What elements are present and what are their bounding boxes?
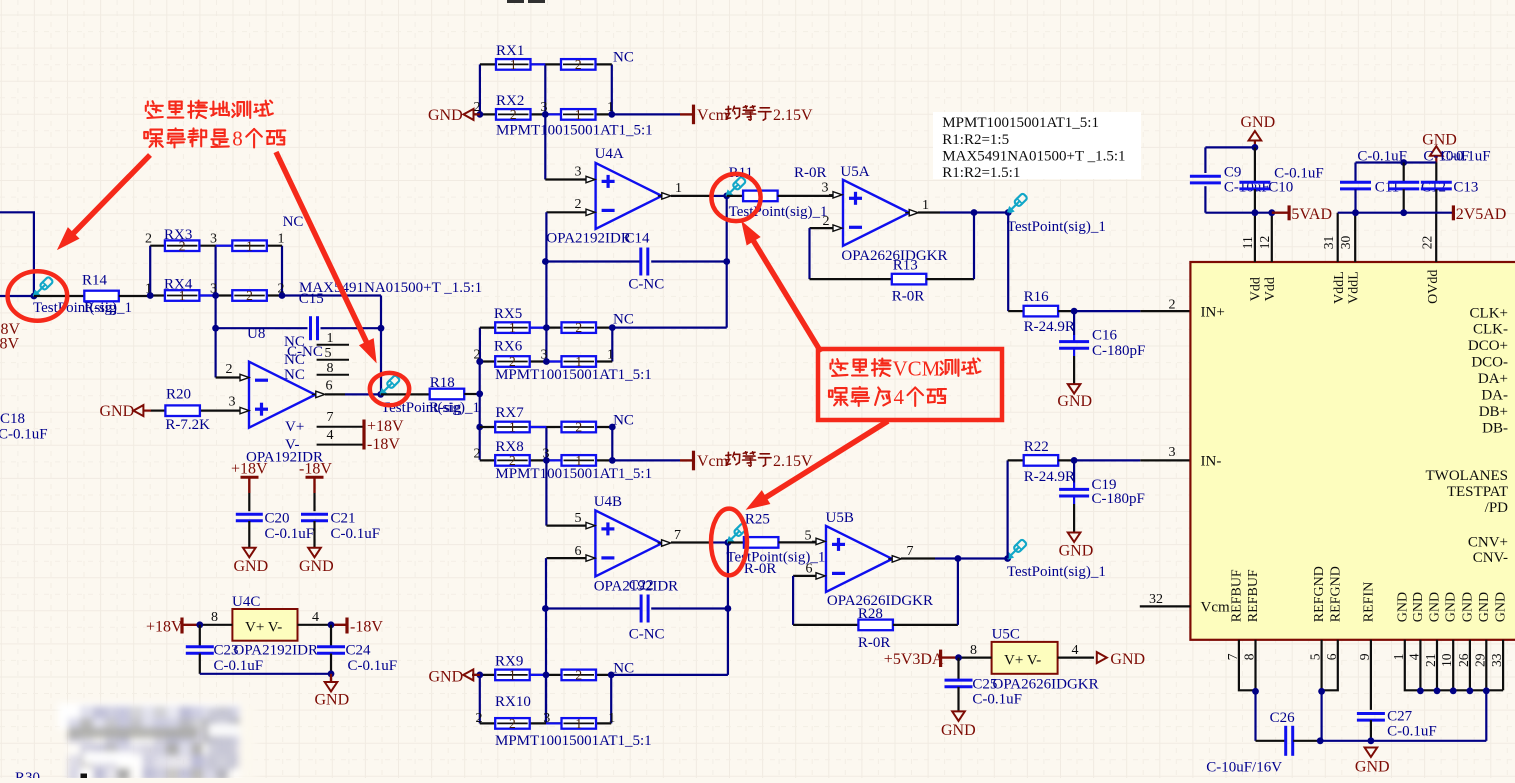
svg-text:IN-: IN- xyxy=(1201,454,1222,470)
svg-text:CNV+: CNV+ xyxy=(1468,535,1508,551)
svg-text:4: 4 xyxy=(327,428,334,443)
svg-text:RX7: RX7 xyxy=(495,405,524,421)
resistor R14 xyxy=(34,295,84,297)
wire RX5/RX6 verticals xyxy=(479,328,481,362)
svg-text:GND: GND xyxy=(234,558,269,575)
svg-text:GND: GND xyxy=(1411,592,1426,622)
svg-text:21: 21 xyxy=(1423,654,1438,668)
svg-text:6: 6 xyxy=(1324,653,1339,660)
node U4A output junction xyxy=(723,193,730,200)
ground GND right of U5C pin4 xyxy=(1097,652,1107,663)
U5C pin 4 xyxy=(1058,656,1094,658)
svg-text:REFGND: REFGND xyxy=(1312,566,1327,622)
svg-text:MPMT10015001AT1_5:1: MPMT10015001AT1_5:1 xyxy=(495,367,652,383)
svg-text:29: 29 xyxy=(1472,653,1487,667)
svg-text:-18V: -18V xyxy=(350,618,383,635)
svg-text:C18: C18 xyxy=(0,411,25,427)
svg-text:NC: NC xyxy=(284,367,305,383)
node R18 junction xyxy=(476,390,483,397)
svg-text:2: 2 xyxy=(1169,298,1176,313)
wire IC pin 9 REFIN xyxy=(1370,640,1372,710)
svg-text:V+: V+ xyxy=(285,419,304,435)
U4C pin 4 xyxy=(298,624,332,626)
IC pin 22 (OVdd) xyxy=(1435,213,1437,262)
svg-text:8: 8 xyxy=(327,361,334,376)
test point TP U4B output xyxy=(727,523,747,543)
svg-text:12: 12 xyxy=(1257,236,1272,250)
ground GND below C16 xyxy=(1068,384,1081,394)
svg-text:C-0.1uF: C-0.1uF xyxy=(972,692,1022,708)
node C14 right xyxy=(723,258,730,265)
capacitor C9 C-10uF xyxy=(1204,147,1206,173)
svg-text:2: 2 xyxy=(145,232,152,247)
U5A output pin 1 xyxy=(909,210,918,216)
svg-text:2: 2 xyxy=(510,107,517,122)
svg-text:NC: NC xyxy=(613,312,634,328)
svg-text:C-NC: C-NC xyxy=(629,627,665,643)
node U4C pin8 junction xyxy=(196,621,203,628)
wire bottom rail xyxy=(1320,740,1486,742)
U4A pin 2 input xyxy=(546,211,586,213)
wire input L from top-left xyxy=(0,212,34,296)
svg-text:11: 11 xyxy=(1240,236,1255,249)
svg-text:DA-: DA- xyxy=(1481,388,1508,404)
annotation red text line 1 xyxy=(146,101,163,118)
svg-text:9: 9 xyxy=(1357,653,1372,660)
svg-text:OPA2626IDGKR: OPA2626IDGKR xyxy=(827,593,933,609)
svg-text:R20: R20 xyxy=(166,386,191,402)
svg-text:2: 2 xyxy=(575,57,582,72)
capacitor C19 C-180pF xyxy=(1073,460,1075,482)
svg-text:R1:R2=1.5:1: R1:R2=1.5:1 xyxy=(942,165,1020,181)
svg-text:1: 1 xyxy=(278,232,285,247)
svg-text:2: 2 xyxy=(575,197,582,212)
capacitor C13 xyxy=(1435,163,1437,183)
wire U5B testpoint up to R22 xyxy=(1006,460,1008,558)
IC pin 31 (VddL) xyxy=(1337,213,1339,262)
svg-text:NC: NC xyxy=(284,334,305,350)
svg-text:C-0.1uF: C-0.1uF xyxy=(331,526,381,542)
svg-text:U5C: U5C xyxy=(992,627,1020,643)
svg-text:C27: C27 xyxy=(1387,709,1413,725)
svg-text:7: 7 xyxy=(674,528,681,543)
svg-text:1: 1 xyxy=(327,331,334,346)
svg-text:GND: GND xyxy=(1395,592,1410,622)
node U5C pin8 junction xyxy=(955,654,962,661)
svg-text:R1:R2=1:5: R1:R2=1:5 xyxy=(942,132,1009,148)
wire fragment bottom left xyxy=(81,774,88,779)
svg-text:NC: NC xyxy=(283,214,304,230)
wire 2V5AD rail xyxy=(1338,212,1454,214)
svg-text:2: 2 xyxy=(509,716,516,731)
capacitor C16 C-180pF xyxy=(1073,311,1075,335)
U4A pin 3 input xyxy=(545,178,586,180)
svg-text:VCM: VCM xyxy=(893,357,941,381)
wire RX9/RX10 verticals xyxy=(479,675,481,724)
svg-text:OPA2626IDGKR: OPA2626IDGKR xyxy=(841,248,947,264)
svg-text:/PD: /PD xyxy=(1485,500,1509,516)
svg-text:R-0R: R-0R xyxy=(892,288,925,304)
svg-text:GND: GND xyxy=(1422,132,1457,149)
svg-text:NC: NC xyxy=(613,412,634,428)
svg-text:U8: U8 xyxy=(247,326,265,342)
resistor R22 R-24.9R xyxy=(1008,459,1024,461)
U5C pin 8 xyxy=(959,656,992,658)
wire to ADC IN+ xyxy=(1074,310,1140,312)
svg-text:MPMT10015001AT1_5:1: MPMT10015001AT1_5:1 xyxy=(495,733,652,749)
svg-text:1: 1 xyxy=(509,420,516,435)
wire IC pin 7 xyxy=(1239,640,1256,691)
svg-text:OPA2192IDR: OPA2192IDR xyxy=(234,642,318,658)
svg-text:TestPoint(sig)_1: TestPoint(sig)_1 xyxy=(1007,564,1106,580)
svg-text:U4C: U4C xyxy=(232,594,260,610)
svg-text:3: 3 xyxy=(575,164,582,179)
svg-text:2.15V: 2.15V xyxy=(773,107,813,124)
wire RX9 NC to U4B output vertical xyxy=(611,674,728,676)
svg-text:GND: GND xyxy=(941,722,976,739)
svg-text:R-0R: R-0R xyxy=(744,561,777,577)
node U5A testpoint junction xyxy=(1005,209,1012,216)
svg-text:U5A: U5A xyxy=(840,164,869,180)
wire REFBUF down to C26 xyxy=(1254,691,1256,741)
node U4C gnd junction xyxy=(328,670,335,677)
svg-text:C-180pF: C-180pF xyxy=(1092,491,1145,507)
svg-text:R-sig: R-sig xyxy=(429,400,462,416)
annotation red ellipse around input test point xyxy=(8,271,68,320)
svg-text:RX6: RX6 xyxy=(494,338,523,354)
svg-text:C-0.1uF: C-0.1uF xyxy=(1274,166,1324,182)
svg-text:TestPoint(sig)_1: TestPoint(sig)_1 xyxy=(729,204,828,220)
wire RX5 row xyxy=(480,327,612,329)
svg-text:2: 2 xyxy=(246,288,253,303)
svg-text:GND: GND xyxy=(428,107,463,124)
annotation red arrow to R11 test point xyxy=(753,241,821,352)
capacitor C12 xyxy=(1403,163,1405,183)
U4A output pin 1 xyxy=(662,193,671,199)
svg-text:C22: C22 xyxy=(629,577,654,593)
svg-text:Vcm: Vcm xyxy=(1201,600,1230,616)
svg-text:Vcm: Vcm xyxy=(697,453,729,470)
wire U4A pin2 vertical to C14/RX5 xyxy=(545,212,547,361)
node U5A output junction xyxy=(971,209,978,216)
IC U? ADC block xyxy=(1190,262,1515,640)
node U5B output junction xyxy=(955,555,962,562)
power +18V / -18V bars at U8 xyxy=(362,420,365,450)
node RX6 left xyxy=(476,358,483,365)
capacitor C21 C-0.1uF xyxy=(313,493,315,511)
svg-text:3: 3 xyxy=(1169,445,1176,460)
svg-text:R16: R16 xyxy=(1024,289,1050,305)
wire U5A testpoint down to R16 xyxy=(1007,213,1009,312)
wire RX8 to Vcm xyxy=(612,459,680,461)
svg-text:MAX5491NA01500+T _1.5:1: MAX5491NA01500+T _1.5:1 xyxy=(299,280,482,296)
svg-text:Vdd: Vdd xyxy=(1249,277,1264,301)
annotation red ellipse around U8 output test point xyxy=(370,373,409,405)
capacitor C20 C-0.1uF xyxy=(248,493,250,511)
wire RX2 to Vcm xyxy=(612,113,680,115)
wire RX5 NC to U4A output vertical xyxy=(612,327,726,329)
svg-text:-18V: -18V xyxy=(0,335,19,352)
svg-text:C-0.1uF: C-0.1uF xyxy=(348,658,398,674)
svg-text:REFBUF: REFBUF xyxy=(1229,569,1244,622)
capacitor C27 C-0.1uF xyxy=(1357,712,1385,715)
svg-text:C-0.1uF: C-0.1uF xyxy=(0,426,48,442)
svg-text:DA+: DA+ xyxy=(1478,371,1508,387)
svg-text:C21: C21 xyxy=(331,511,356,527)
svg-text:22: 22 xyxy=(1420,236,1435,250)
svg-text:GND: GND xyxy=(1460,592,1475,622)
wire U4B pin6 vertical to C22/RX9 xyxy=(545,558,547,723)
svg-text:C24: C24 xyxy=(346,642,372,658)
node C27 bottom junction xyxy=(1368,737,1375,744)
svg-text:+18V: +18V xyxy=(367,418,404,435)
svg-text:GND: GND xyxy=(1110,651,1145,668)
svg-text:U5B: U5B xyxy=(826,510,854,526)
U8 pin 2 (inverting input) xyxy=(216,376,240,378)
wire RX4 output to U8 output node xyxy=(282,294,381,296)
svg-text:-18V: -18V xyxy=(299,461,332,478)
annotation red text line 2 xyxy=(144,130,163,147)
svg-text:OPA2192IDR: OPA2192IDR xyxy=(546,230,630,246)
resistor R13 R-0R (U5A feedback) xyxy=(808,228,810,279)
IC pin 30 (VddL) xyxy=(1354,213,1356,262)
U4B pin 6 input xyxy=(546,557,586,559)
svg-text:C-180pF: C-180pF xyxy=(1092,343,1145,359)
wire RX3/RX4 middle vertical (to C15 / U8 pin2) xyxy=(215,246,217,378)
svg-text:1: 1 xyxy=(1391,654,1406,661)
node RX5/RX6 junctions xyxy=(543,324,550,331)
wire RX6 row xyxy=(480,360,612,362)
wire U4C decoupling bottom xyxy=(200,673,331,675)
annotation white info box xyxy=(933,112,1141,179)
svg-text:GND: GND xyxy=(1059,543,1094,560)
node C26 right junction xyxy=(1317,737,1324,744)
svg-text:GND: GND xyxy=(1057,393,1092,410)
node RX9 junctions xyxy=(476,672,483,679)
node C14 left xyxy=(542,258,549,265)
svg-text:2: 2 xyxy=(226,362,233,377)
capacitor C25 C-0.1uF xyxy=(957,658,959,680)
svg-text:R22: R22 xyxy=(1024,439,1049,455)
svg-text:C9: C9 xyxy=(1224,164,1242,180)
svg-text:2.15V: 2.15V xyxy=(773,453,813,470)
svg-text:DCO+: DCO+ xyxy=(1468,338,1508,354)
svg-text:8: 8 xyxy=(211,610,218,625)
wire GND pins manifold xyxy=(1405,640,1503,691)
svg-text:2: 2 xyxy=(575,320,582,335)
ground GND below C20 xyxy=(243,548,256,558)
wire RX9 row xyxy=(472,674,611,676)
svg-text:5: 5 xyxy=(575,511,582,526)
power 2V5AD xyxy=(1452,205,1455,220)
svg-text:GND: GND xyxy=(100,403,135,420)
svg-text:R-24.9R: R-24.9R xyxy=(1024,469,1075,485)
wire IC pin 8 xyxy=(1254,640,1256,692)
svg-text:5: 5 xyxy=(805,529,812,544)
svg-text:U4B: U4B xyxy=(594,494,622,510)
svg-text:GND: GND xyxy=(1428,592,1443,622)
svg-text:C25: C25 xyxy=(972,676,997,692)
svg-text:C-0.1uF: C-0.1uF xyxy=(265,526,315,542)
svg-text:GND: GND xyxy=(315,692,350,709)
wire GND rail down xyxy=(1485,690,1487,741)
svg-text:1: 1 xyxy=(510,57,517,72)
svg-text:1: 1 xyxy=(575,107,582,122)
svg-text:GND: GND xyxy=(299,558,334,575)
node RX7 left xyxy=(476,424,483,431)
svg-text:TWOLANES: TWOLANES xyxy=(1426,468,1509,484)
annotation red ellipse around R25 test point xyxy=(711,509,747,576)
node U4C pin4 junction xyxy=(328,621,335,628)
svg-text:1: 1 xyxy=(575,716,582,731)
wire U8 feedback top xyxy=(216,327,308,329)
node U8 output junction xyxy=(377,391,384,398)
wire RX4 row xyxy=(150,294,282,296)
svg-text:8: 8 xyxy=(970,643,977,658)
svg-text:CNV-: CNV- xyxy=(1473,550,1508,566)
svg-text:3: 3 xyxy=(822,180,829,195)
svg-text:C-0.1uF: C-0.1uF xyxy=(214,658,264,674)
svg-text:IN+: IN+ xyxy=(1201,304,1225,320)
svg-text:26: 26 xyxy=(1456,653,1471,667)
svg-text:2V5AD: 2V5AD xyxy=(1456,206,1507,223)
svg-text:CLK+: CLK+ xyxy=(1470,306,1508,322)
svg-text:DCO-: DCO- xyxy=(1471,355,1508,371)
svg-text:2: 2 xyxy=(823,214,830,229)
svg-text:+18V: +18V xyxy=(146,618,183,635)
wire RX1/RX2 verticals xyxy=(479,64,481,114)
svg-text:REFIN: REFIN xyxy=(1361,582,1376,622)
svg-text:R-0R: R-0R xyxy=(794,165,827,181)
svg-text:C10: C10 xyxy=(1268,180,1293,196)
node U4B output junction xyxy=(725,539,732,546)
svg-text:10: 10 xyxy=(1439,653,1454,667)
annotation red box VCM note xyxy=(818,349,1002,420)
annotation red arrow to R25 test point xyxy=(766,421,888,497)
wire REFGND down to bottom rail xyxy=(1320,691,1322,741)
ground GND below U4C xyxy=(330,674,332,682)
svg-text:1: 1 xyxy=(246,238,253,253)
svg-text:GND: GND xyxy=(429,668,464,685)
node R16/C16 junction xyxy=(1071,308,1078,315)
svg-text:1: 1 xyxy=(509,668,516,683)
svg-text:C-0.1uF: C-0.1uF xyxy=(1441,148,1491,164)
svg-text:3: 3 xyxy=(543,711,550,726)
svg-text:5: 5 xyxy=(325,346,332,361)
annotation red arrow to input test point xyxy=(73,155,150,233)
svg-text:2: 2 xyxy=(179,238,186,253)
capacitor C10 C-0.1uF xyxy=(1254,147,1256,182)
wire IC pin 6 xyxy=(1322,640,1338,691)
wire RX8 row xyxy=(480,459,613,461)
U8 NC pins 1,5,8 xyxy=(317,344,349,346)
svg-text:+18V: +18V xyxy=(231,461,268,478)
annotation red arrow to U8 output test point xyxy=(276,152,367,342)
IC pin 11 (Vdd) xyxy=(1254,213,1256,262)
node C15 right xyxy=(378,325,385,332)
svg-text:7: 7 xyxy=(327,410,334,425)
capacitor C26 C-10uF/16V xyxy=(1256,740,1286,742)
wire input to test point xyxy=(0,295,34,297)
svg-text:MPMT10015001AT1_5:1: MPMT10015001AT1_5:1 xyxy=(495,466,652,482)
U5A pin 2 input xyxy=(810,227,834,229)
power port Vcm approx 2.15V (top) xyxy=(680,113,694,115)
node TestPoint input junction xyxy=(31,293,38,300)
svg-text:R-0R: R-0R xyxy=(858,635,891,651)
svg-text:1: 1 xyxy=(607,347,614,362)
svg-text:TestPoint(sig)_1: TestPoint(sig)_1 xyxy=(1007,219,1106,235)
svg-text:GND: GND xyxy=(1477,592,1492,622)
node RX4 junctions xyxy=(147,292,154,299)
svg-text:REFBUF: REFBUF xyxy=(1246,569,1261,622)
U5A pin 3 input xyxy=(833,192,842,198)
svg-text:5: 5 xyxy=(1308,653,1323,660)
wire RX3 row xyxy=(150,245,282,247)
svg-text:1: 1 xyxy=(509,320,516,335)
svg-text:OPA2626IDGKR: OPA2626IDGKR xyxy=(993,676,1099,692)
svg-text:2: 2 xyxy=(476,711,483,726)
wire RX7/RX8 verticals xyxy=(545,427,547,460)
U5B pin 6 input xyxy=(793,575,816,577)
wire U4A output vertical to C14/RX5 xyxy=(726,196,728,328)
node C22 left xyxy=(542,605,549,612)
svg-text:4: 4 xyxy=(1072,643,1079,658)
power port Vcm approx 2.15V (lower) xyxy=(680,459,694,461)
svg-text:33: 33 xyxy=(1489,653,1504,667)
svg-text:RX10: RX10 xyxy=(495,694,531,710)
test point TP input (TestPoint(sig)_1) xyxy=(33,276,53,296)
ground GND below C27 xyxy=(1365,748,1378,758)
svg-text:NC: NC xyxy=(613,50,634,66)
wire to ADC IN- xyxy=(1074,459,1140,461)
IC pin 12 (Vdd) xyxy=(1271,213,1273,262)
U4B output pin 7 xyxy=(662,540,671,546)
ground GND below C25 xyxy=(952,711,965,721)
capacitor C24 C-0.1uF xyxy=(330,625,332,647)
svg-text:Vdd: Vdd xyxy=(1263,277,1278,301)
U4B pin 5 input xyxy=(545,460,547,525)
wire fragment top edge title xyxy=(507,0,524,3)
svg-text:4: 4 xyxy=(894,385,905,409)
svg-text:7: 7 xyxy=(1225,653,1240,660)
test point TP U4A output xyxy=(726,176,746,196)
wire U4B output vertical to C22/RX9 xyxy=(727,543,729,675)
node R22/C19 junction xyxy=(1071,457,1078,464)
U5B output pin 7 xyxy=(892,556,901,562)
svg-text:GND: GND xyxy=(1241,114,1276,131)
svg-text:MAX5491NA01500+T _1.5:1: MAX5491NA01500+T _1.5:1 xyxy=(942,149,1125,165)
ground GND below C21 xyxy=(308,548,321,558)
wire center bus R18 to RX networks xyxy=(479,362,481,460)
svg-text:31: 31 xyxy=(1321,236,1336,250)
node RX7/RX8 junctions xyxy=(543,457,550,464)
wire 5VAD rail xyxy=(1205,212,1271,214)
svg-text:R25: R25 xyxy=(745,511,770,527)
node pin5/6 junction xyxy=(1318,688,1325,695)
svg-text:8: 8 xyxy=(232,127,243,151)
wire IC pin 5 xyxy=(1320,640,1322,692)
svg-text:R-24.9R: R-24.9R xyxy=(1024,319,1075,335)
svg-text:-18V: -18V xyxy=(367,436,400,453)
svg-text:3: 3 xyxy=(229,394,236,409)
node RX2 junctions xyxy=(477,111,484,118)
svg-text:C13: C13 xyxy=(1453,180,1478,196)
svg-text:C26: C26 xyxy=(1270,710,1296,726)
svg-text:30: 30 xyxy=(1338,235,1353,249)
svg-text:DB-: DB- xyxy=(1482,421,1508,437)
U8 pins 7 (V+) and 4 (V-) xyxy=(317,426,363,428)
svg-text:TESTPAT: TESTPAT xyxy=(1447,484,1508,500)
